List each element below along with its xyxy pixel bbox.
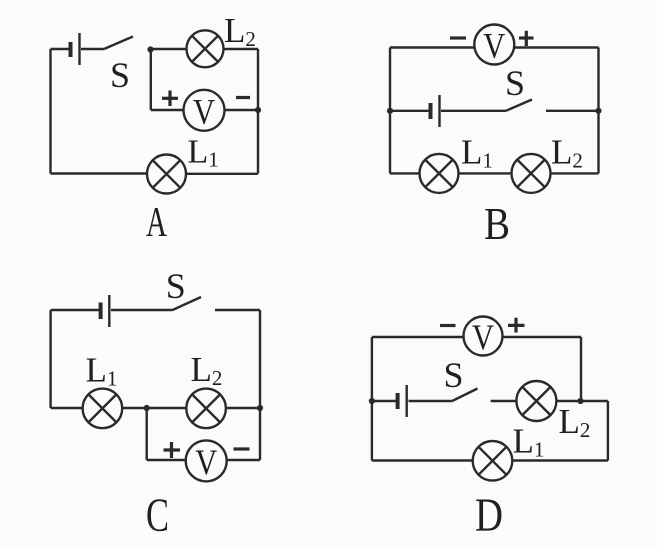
svg-text:B: B bbox=[484, 198, 510, 249]
svg-text:S: S bbox=[110, 55, 130, 95]
svg-text:V: V bbox=[193, 91, 215, 131]
svg-text:A: A bbox=[146, 200, 167, 246]
svg-text:V: V bbox=[472, 317, 494, 357]
svg-text:S: S bbox=[505, 63, 525, 103]
svg-text:S: S bbox=[166, 266, 186, 306]
svg-text:S: S bbox=[443, 355, 463, 395]
svg-text:V: V bbox=[195, 442, 217, 482]
svg-text:D: D bbox=[475, 489, 503, 542]
svg-text:C: C bbox=[146, 489, 169, 542]
svg-text:V: V bbox=[483, 26, 505, 66]
